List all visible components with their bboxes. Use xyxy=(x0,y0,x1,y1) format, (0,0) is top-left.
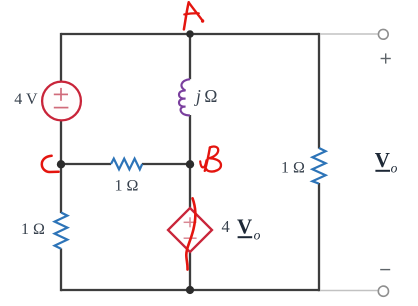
svg-text:V: V xyxy=(237,214,252,238)
svg-text:j Ω: j Ω xyxy=(194,86,217,106)
svg-text:V: V xyxy=(375,148,390,172)
svg-text:4 V: 4 V xyxy=(14,91,38,108)
svg-text:o: o xyxy=(254,227,261,242)
svg-text:1 Ω: 1 Ω xyxy=(21,221,45,238)
svg-text:1 Ω: 1 Ω xyxy=(115,177,139,194)
svg-text:1 Ω: 1 Ω xyxy=(281,159,305,176)
svg-text:4: 4 xyxy=(222,217,230,236)
svg-text:o: o xyxy=(391,161,398,176)
